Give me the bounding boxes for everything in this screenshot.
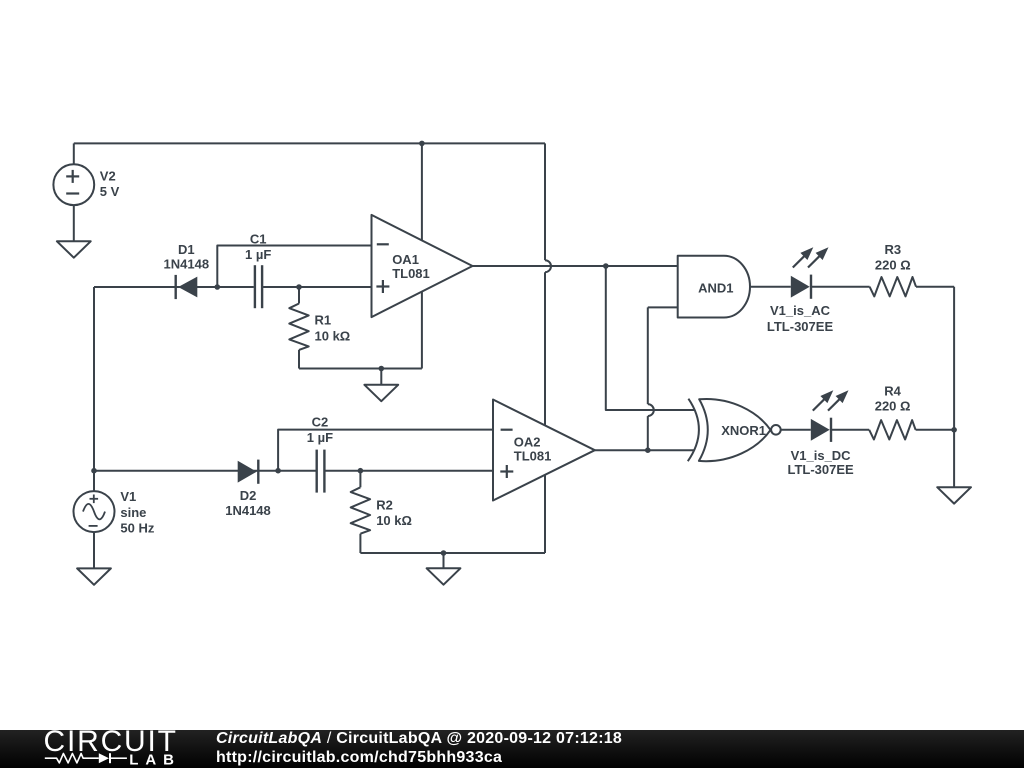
svg-text:AND1: AND1 (698, 280, 733, 295)
svg-text:R2: R2 (376, 497, 393, 512)
svg-text:V2: V2 (100, 168, 116, 183)
svg-text:220 Ω: 220 Ω (875, 257, 911, 272)
svg-text:220 Ω: 220 Ω (875, 399, 911, 414)
svg-text:OA2: OA2 (514, 434, 541, 449)
svg-text:D1: D1 (178, 242, 195, 257)
svg-text:sine: sine (120, 505, 146, 520)
svg-text:TL081: TL081 (392, 266, 430, 281)
svg-text:5 V: 5 V (100, 184, 120, 199)
svg-text:OA1: OA1 (392, 252, 419, 267)
svg-text:TL081: TL081 (514, 448, 552, 463)
svg-text:10 kΩ: 10 kΩ (376, 513, 412, 528)
svg-text:LAB: LAB (129, 751, 179, 768)
svg-text:LTL-307EE: LTL-307EE (767, 319, 834, 334)
svg-text:V1_is_AC: V1_is_AC (770, 303, 831, 318)
svg-text:C2: C2 (312, 414, 329, 429)
svg-text:LTL-307EE: LTL-307EE (787, 462, 854, 477)
svg-text:1N4148: 1N4148 (225, 503, 271, 518)
svg-text:R1: R1 (315, 313, 332, 328)
svg-text:R4: R4 (884, 383, 901, 398)
svg-text:V1: V1 (120, 489, 136, 504)
svg-text:1 µF: 1 µF (307, 430, 333, 445)
svg-text:V1_is_DC: V1_is_DC (791, 448, 852, 463)
svg-text:10 kΩ: 10 kΩ (315, 328, 351, 343)
svg-text:50 Hz: 50 Hz (120, 520, 154, 535)
svg-text:1 µF: 1 µF (245, 247, 271, 262)
svg-text:1N4148: 1N4148 (164, 257, 210, 272)
svg-text:D2: D2 (240, 488, 257, 503)
svg-text:C1: C1 (250, 231, 267, 246)
svg-text:XNOR1: XNOR1 (721, 423, 766, 438)
svg-text:R3: R3 (884, 242, 901, 257)
